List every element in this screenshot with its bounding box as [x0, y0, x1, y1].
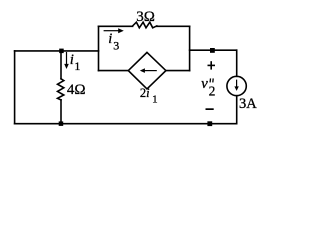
svg-text:3A: 3A — [239, 96, 257, 112]
svg-text:i: i — [70, 52, 74, 68]
svg-text:i: i — [108, 31, 112, 47]
svg-text:v: v — [201, 76, 208, 92]
svg-text:1: 1 — [74, 59, 80, 73]
svg-text:2: 2 — [209, 84, 216, 99]
svg-text:4Ω: 4Ω — [67, 82, 86, 98]
svg-text:1: 1 — [152, 94, 158, 106]
svg-text:3: 3 — [113, 39, 119, 53]
svg-text:3Ω: 3Ω — [136, 9, 155, 25]
svg-text:2i: 2i — [140, 86, 150, 100]
